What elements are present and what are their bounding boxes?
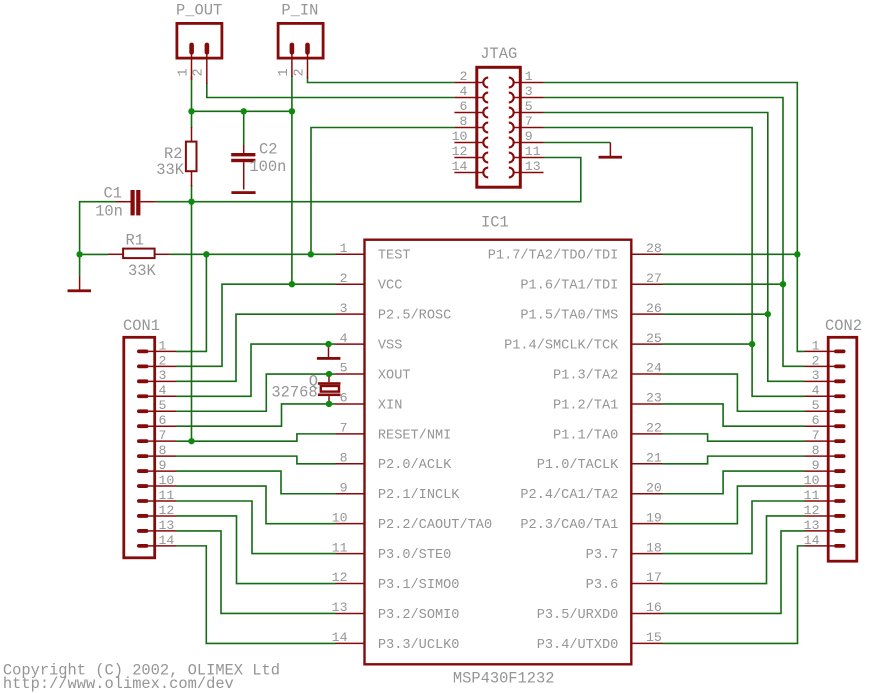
wire IC pin23 to CON2 pin6 xyxy=(663,404,805,426)
svg-text:P3.1/SIMO0: P3.1/SIMO0 xyxy=(378,578,460,593)
svg-text:4: 4 xyxy=(459,84,467,99)
junction node 5 xyxy=(76,251,82,257)
CON2 pin 13 xyxy=(834,529,846,533)
svg-text:19: 19 xyxy=(646,510,662,525)
svg-text:28: 28 xyxy=(646,241,662,256)
JTAG pin 9 xyxy=(514,142,544,144)
svg-text:P3.7: P3.7 xyxy=(586,548,619,563)
JTAG pin 7 xyxy=(514,127,544,129)
wire CON1 pin11 to IC pin11 xyxy=(176,501,336,554)
capacitor C2 xyxy=(231,153,255,156)
svg-text:TEST: TEST xyxy=(378,249,411,264)
connector CON2 body xyxy=(828,337,857,561)
junction node 14 xyxy=(780,281,786,287)
svg-text:25: 25 xyxy=(646,331,662,346)
svg-text:21: 21 xyxy=(646,451,662,466)
wire IC pin17 to CON2 pin12 xyxy=(663,516,805,584)
CON1 pin 8 xyxy=(137,454,149,458)
svg-text:2: 2 xyxy=(812,353,820,368)
svg-text:P_OUT: P_OUT xyxy=(176,2,222,20)
svg-text:8: 8 xyxy=(340,451,348,466)
IC1 pin 21 P1.0/TACLK xyxy=(631,463,662,465)
svg-text:CON2: CON2 xyxy=(825,317,862,335)
IC1 pin 14 P3.3/UCLK0 xyxy=(336,642,365,644)
wire junction row to R2 top xyxy=(191,111,193,128)
connector CON1 body xyxy=(124,337,155,558)
IC1 pin 7 RESET/NMI xyxy=(336,433,365,435)
svg-text:P3.6: P3.6 xyxy=(586,578,619,593)
IC1 pin 24 P1.3/TA2 xyxy=(631,373,662,375)
svg-text:5: 5 xyxy=(525,99,533,114)
junction node 2 xyxy=(241,108,247,114)
ground at VSS xyxy=(328,344,330,357)
IC1 pin 4 VSS xyxy=(336,343,365,345)
wire RST vertical to CON1 pin7 junction xyxy=(191,202,193,441)
wire CON1 pin2 to VCC row xyxy=(176,284,336,366)
wire R1 to IC pin1 TEST xyxy=(170,253,336,255)
svg-text:12: 12 xyxy=(332,570,348,585)
connector JTAG xyxy=(477,67,521,187)
svg-text:C2: C2 xyxy=(259,140,277,158)
wire IC pin28 to net xyxy=(663,253,798,255)
wire IC pin19 to CON2 pin10 xyxy=(663,486,805,524)
svg-text:P3.4/UTXD0: P3.4/UTXD0 xyxy=(537,638,619,653)
svg-text:9: 9 xyxy=(159,458,167,473)
svg-text:5: 5 xyxy=(812,398,820,413)
wire IC pin27 to net xyxy=(663,283,784,285)
svg-text:VSS: VSS xyxy=(378,338,402,353)
svg-text:6: 6 xyxy=(459,99,467,114)
wire CON1 pin12 to IC pin12 xyxy=(176,516,336,584)
wire JTAG pin8 to IC TEST net xyxy=(311,128,454,255)
svg-text:2: 2 xyxy=(192,68,207,76)
svg-text:12: 12 xyxy=(159,503,175,518)
wire IC pin24 to CON2 pin5 xyxy=(663,374,805,411)
svg-text:3: 3 xyxy=(340,301,348,316)
wire IC pin18 to CON2 pin11 xyxy=(663,501,805,554)
CON1 pin 10 xyxy=(137,484,149,488)
svg-text:P1.7/TA2/TDO/TDI: P1.7/TA2/TDO/TDI xyxy=(488,249,619,264)
wire CON1 pin3 to IC pin3 xyxy=(176,314,336,381)
wire CON1 pin8 to IC pin8 xyxy=(176,456,336,464)
svg-text:C1: C1 xyxy=(104,185,122,203)
IC U1 MSP430F1232 body xyxy=(365,240,632,665)
wire CON1 pin5 to XOUT row xyxy=(176,374,336,411)
svg-text:3: 3 xyxy=(159,368,167,383)
svg-text:24: 24 xyxy=(646,361,662,376)
CON1 pin 12 xyxy=(137,514,149,518)
JTAG pin 4 xyxy=(454,97,483,99)
connector P_IN xyxy=(278,23,323,58)
CON1 pin 13 xyxy=(137,529,149,533)
IC1 pin 27 P1.6/TA1/TDI xyxy=(631,283,662,285)
svg-text:100n: 100n xyxy=(249,158,286,176)
junction node 1 xyxy=(188,108,194,114)
svg-text:17: 17 xyxy=(646,570,662,585)
svg-text:10: 10 xyxy=(332,510,348,525)
svg-text:7: 7 xyxy=(340,421,348,436)
connector P_OUT xyxy=(177,23,222,58)
CON2 pin 2 xyxy=(834,364,846,368)
svg-text:5: 5 xyxy=(340,361,348,376)
svg-text:13: 13 xyxy=(159,518,175,533)
svg-text:CON1: CON1 xyxy=(123,317,160,335)
wire IC pin25 to net xyxy=(663,343,753,345)
CON2 pin 14 xyxy=(834,544,846,548)
JTAG pin 12 xyxy=(454,157,483,159)
svg-text:13: 13 xyxy=(332,600,348,615)
svg-text:R1: R1 xyxy=(126,231,144,249)
resistor R2 xyxy=(186,142,197,172)
IC1 pin 16 P3.5/URXD0 xyxy=(631,612,662,614)
svg-text:VCC: VCC xyxy=(378,279,402,294)
svg-text:P3.5/URXD0: P3.5/URXD0 xyxy=(537,608,619,623)
svg-text:33K: 33K xyxy=(156,161,184,179)
wire R1 gnd stub xyxy=(79,254,81,276)
svg-text:9: 9 xyxy=(525,129,533,144)
IC1 pin 23 P1.2/TA1 xyxy=(631,403,662,405)
svg-text:P3.2/SOMI0: P3.2/SOMI0 xyxy=(378,608,460,623)
wire JTAG pin7 to CON2 pin4 / IC pin25 xyxy=(544,128,805,397)
svg-text:1: 1 xyxy=(340,241,348,256)
wire CON1 pin9 to IC pin9 xyxy=(176,471,336,494)
junction node 3 xyxy=(289,108,295,114)
IC1 pin 3 P2.5/ROSC xyxy=(336,313,365,315)
svg-text:IC1: IC1 xyxy=(481,214,509,232)
svg-text:P2.5/ROSC: P2.5/ROSC xyxy=(378,309,451,324)
svg-text:MSP430F1232: MSP430F1232 xyxy=(453,670,555,688)
svg-text:14: 14 xyxy=(804,533,820,548)
svg-text:2: 2 xyxy=(292,68,307,76)
svg-text:P1.6/TA1/TDI: P1.6/TA1/TDI xyxy=(520,279,618,294)
CON2 pin 7 xyxy=(834,439,846,443)
capacitor C1 xyxy=(131,190,135,215)
svg-text:1: 1 xyxy=(277,68,292,76)
svg-text:JTAG: JTAG xyxy=(480,45,517,63)
svg-text:9: 9 xyxy=(812,458,820,473)
svg-text:P1.0/TACLK: P1.0/TACLK xyxy=(537,458,619,473)
svg-text:http://www.olimex.com/dev: http://www.olimex.com/dev xyxy=(3,675,234,693)
IC1 pin 17 P3.6 xyxy=(631,583,662,585)
svg-text:10: 10 xyxy=(804,473,820,488)
ground under R1 xyxy=(79,276,81,290)
CON2 pin 9 xyxy=(834,469,846,473)
svg-text:P1.2/TA1: P1.2/TA1 xyxy=(553,398,618,413)
wire P_OUT pin2 to JTAG pin4 xyxy=(207,83,455,98)
JTAG pin 2 xyxy=(454,82,483,84)
IC1 pin 2 VCC xyxy=(336,283,365,285)
svg-text:P2.2/CAOUT/TA0: P2.2/CAOUT/TA0 xyxy=(378,518,492,533)
CON1 pin 3 xyxy=(137,379,149,383)
svg-text:P1.1/TA0: P1.1/TA0 xyxy=(553,428,618,443)
IC1 pin 19 P2.3/CA0/TA1 xyxy=(631,523,662,525)
IC1 pin 5 XOUT xyxy=(336,373,365,375)
CON2 pin 11 xyxy=(834,499,846,503)
svg-text:1: 1 xyxy=(159,338,167,353)
wire JTAG pin3 to CON2 pin2 / IC pin27 xyxy=(544,98,805,367)
CON2 pin 4 xyxy=(834,394,846,398)
CON1 pin 9 xyxy=(137,469,149,473)
svg-text:6: 6 xyxy=(812,413,820,428)
svg-text:8: 8 xyxy=(459,114,467,129)
wire C1 node to JTAG pin11 xyxy=(156,158,581,202)
svg-text:P2.1/INCLK: P2.1/INCLK xyxy=(378,488,460,503)
svg-text:5: 5 xyxy=(159,398,167,413)
wire R2 bottom to C1 node xyxy=(191,185,193,202)
junction node 10 xyxy=(326,371,332,377)
JTAG pin 5 xyxy=(514,112,544,114)
wire P_OUT pin1 to junction row xyxy=(191,76,193,111)
CON2 pin 1 xyxy=(834,350,846,354)
svg-text:7: 7 xyxy=(525,114,533,129)
svg-text:14: 14 xyxy=(332,630,348,645)
svg-text:16: 16 xyxy=(646,600,662,615)
resistor R1 xyxy=(123,249,155,259)
svg-text:22: 22 xyxy=(646,421,662,436)
wire CON1 pin1 to TEST row xyxy=(176,254,206,351)
svg-text:P3.3/UCLK0: P3.3/UCLK0 xyxy=(378,638,460,653)
CON1 pin 6 xyxy=(137,424,149,428)
junction node 16 xyxy=(749,341,755,347)
junction node 8 xyxy=(289,281,295,287)
svg-text:1: 1 xyxy=(525,69,533,84)
JTAG pin 8 xyxy=(454,127,483,129)
CON2 pin 10 xyxy=(834,484,846,488)
svg-text:3: 3 xyxy=(525,84,533,99)
IC1 pin 18 P3.7 xyxy=(631,553,662,555)
IC1 pin 25 P1.4/SMCLK/TCK xyxy=(631,343,662,345)
svg-text:15: 15 xyxy=(646,630,662,645)
svg-text:33K: 33K xyxy=(128,262,156,280)
svg-text:6: 6 xyxy=(340,391,348,406)
junction node 11 xyxy=(326,401,332,407)
wire JTAG pin5 to CON2 pin3 / IC pin26 xyxy=(544,113,805,382)
svg-text:13: 13 xyxy=(525,159,541,174)
svg-text:2: 2 xyxy=(159,353,167,368)
wire P_IN pin2 to JTAG pin2 xyxy=(308,77,455,83)
CON2 pin 5 xyxy=(834,409,846,413)
svg-text:10n: 10n xyxy=(95,202,123,220)
svg-text:P2.3/CA0/TA1: P2.3/CA0/TA1 xyxy=(520,518,618,533)
svg-text:P1.4/SMCLK/TCK: P1.4/SMCLK/TCK xyxy=(504,338,619,353)
svg-text:4: 4 xyxy=(159,383,167,398)
wire junction row horizontal xyxy=(192,110,292,112)
svg-text:1: 1 xyxy=(812,338,820,353)
svg-text:2: 2 xyxy=(340,271,348,286)
junction node 12 xyxy=(188,438,194,444)
svg-text:32768: 32768 xyxy=(271,384,317,402)
svg-text:7: 7 xyxy=(812,428,820,443)
svg-text:26: 26 xyxy=(646,301,662,316)
CON1 pin 2 xyxy=(137,364,149,368)
svg-text:12: 12 xyxy=(804,503,820,518)
CON2 pin 8 xyxy=(834,454,846,458)
wire CON1 pin4 to VSS row xyxy=(176,344,336,396)
wire IC pin20 to CON2 pin9 xyxy=(663,471,805,494)
svg-text:14: 14 xyxy=(159,533,175,548)
svg-text:14: 14 xyxy=(452,159,468,174)
svg-text:4: 4 xyxy=(340,331,348,346)
svg-text:P2.0/ACLK: P2.0/ACLK xyxy=(378,458,452,473)
junction node 4 xyxy=(188,199,194,205)
svg-text:13: 13 xyxy=(804,518,820,533)
wire junction row to C2 top xyxy=(243,111,245,147)
junction node 15 xyxy=(765,311,771,317)
svg-text:P_IN: P_IN xyxy=(281,2,318,20)
CON1 pin 5 xyxy=(137,409,149,413)
svg-text:6: 6 xyxy=(159,413,167,428)
svg-text:9: 9 xyxy=(340,480,348,495)
CON2 pin 12 xyxy=(834,514,846,518)
svg-text:P1.3/TA2: P1.3/TA2 xyxy=(553,368,618,383)
wire CON1 pin13 to IC pin13 xyxy=(176,531,336,614)
CON2 pin 6 xyxy=(834,424,846,428)
svg-text:XIN: XIN xyxy=(378,398,402,413)
CON1 pin 7 xyxy=(137,439,149,443)
svg-text:1: 1 xyxy=(176,68,191,76)
IC1 pin 9 P2.1/INCLK xyxy=(336,493,365,495)
svg-text:3: 3 xyxy=(812,368,820,383)
JTAG pin 1 xyxy=(514,82,544,84)
IC1 pin 22 P1.1/TA0 xyxy=(631,433,662,435)
JTAG pin 10 xyxy=(454,142,483,144)
svg-text:11: 11 xyxy=(159,488,175,503)
CON1 pin 1 xyxy=(137,350,149,354)
wire CON1 pin7 to IC RESET xyxy=(176,434,336,441)
svg-text:4: 4 xyxy=(812,383,820,398)
JTAG pin 6 xyxy=(454,112,483,114)
svg-text:P1.5/TA0/TMS: P1.5/TA0/TMS xyxy=(520,309,618,324)
IC1 pin 15 P3.4/UTXD0 xyxy=(631,642,662,644)
svg-text:2: 2 xyxy=(459,69,467,84)
IC1 pin 8 P2.0/ACLK xyxy=(336,463,365,465)
junction node 9 xyxy=(325,341,331,347)
CON2 pin 3 xyxy=(834,379,846,383)
wire CON1 pin14 to IC pin14 xyxy=(176,546,336,644)
IC1 pin 1 TEST xyxy=(336,253,365,255)
wire IC pin15 to CON2 pin14 xyxy=(663,546,805,644)
junction node 13 xyxy=(794,251,800,257)
svg-text:12: 12 xyxy=(452,144,468,159)
CON1 pin 4 xyxy=(137,394,149,398)
wire IC pin16 to CON2 pin13 xyxy=(663,531,805,614)
svg-text:11: 11 xyxy=(525,144,541,159)
JTAG pin 3 xyxy=(514,97,544,99)
JTAG pin 14 xyxy=(454,172,483,174)
ground at JTAG pin9 xyxy=(609,143,611,157)
IC1 pin 20 P2.4/CA1/TA2 xyxy=(631,493,662,495)
CON1 pin 11 xyxy=(137,499,149,503)
IC1 pin 26 P1.5/TA0/TMS xyxy=(631,313,662,315)
wire R1 row left xyxy=(80,253,108,255)
svg-text:11: 11 xyxy=(332,540,348,555)
wire IC pin21 to CON2 pin8 xyxy=(663,456,805,464)
wire CON1 pin6 to XIN row xyxy=(176,404,336,426)
svg-text:18: 18 xyxy=(646,540,662,555)
wire JTAG pin9 to ground xyxy=(544,142,611,144)
wire IC pin22 to CON2 pin7 xyxy=(663,434,805,441)
JTAG pin 13 xyxy=(514,172,544,174)
svg-text:10: 10 xyxy=(452,129,468,144)
wire CON1 pin10 to IC pin10 xyxy=(176,486,336,524)
JTAG pin 11 xyxy=(514,157,544,159)
wire P_IN pin1 down to VCC row xyxy=(291,76,293,284)
wire JTAG pin1 to CON2 pin1 / IC pin28 xyxy=(544,83,805,352)
svg-text:10: 10 xyxy=(159,473,175,488)
svg-text:23: 23 xyxy=(646,391,662,406)
svg-text:P2.4/CA1/TA2: P2.4/CA1/TA2 xyxy=(520,488,618,503)
svg-text:11: 11 xyxy=(804,488,820,503)
CON1 pin 14 xyxy=(137,544,149,548)
junction node 7 xyxy=(308,251,314,257)
svg-text:RESET/NMI: RESET/NMI xyxy=(378,428,451,443)
wire IC pin26 to net xyxy=(663,313,768,315)
IC1 pin 10 P2.2/CAOUT/TA0 xyxy=(336,523,365,525)
svg-text:XOUT: XOUT xyxy=(378,368,411,383)
IC1 pin 6 XIN xyxy=(336,403,365,405)
ground under C2 xyxy=(231,191,255,194)
IC1 pin 13 P3.2/SOMI0 xyxy=(336,612,365,614)
junction node 6 xyxy=(203,251,209,257)
IC1 pin 28 P1.7/TA2/TDO/TDI xyxy=(631,253,662,255)
svg-text:7: 7 xyxy=(159,428,167,443)
crystal Q1 xyxy=(318,382,341,385)
IC1 pin 11 P3.0/STE0 xyxy=(336,553,365,555)
svg-text:8: 8 xyxy=(159,443,167,458)
wire C1 row left segment xyxy=(80,202,116,255)
svg-text:8: 8 xyxy=(812,443,820,458)
svg-text:20: 20 xyxy=(646,480,662,495)
svg-text:P3.0/STE0: P3.0/STE0 xyxy=(378,548,451,563)
svg-text:27: 27 xyxy=(646,271,662,286)
IC1 pin 12 P3.1/SIMO0 xyxy=(336,583,365,585)
